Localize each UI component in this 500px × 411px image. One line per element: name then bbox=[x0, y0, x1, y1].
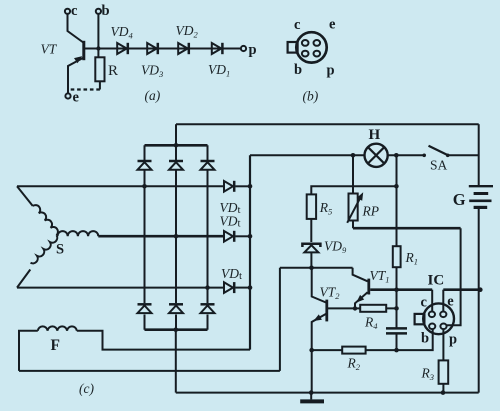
resistor R2 bbox=[342, 347, 365, 372]
wire R5 to VD9 bbox=[310, 219, 312, 242]
svg-text:(a): (a) bbox=[145, 88, 161, 103]
node base junction bbox=[96, 46, 100, 50]
wire VD9 down bbox=[310, 252, 312, 267]
wire phase mid bbox=[98, 235, 224, 238]
svg-text:RP: RP bbox=[362, 204, 380, 219]
wire below R bbox=[99, 81, 101, 89]
diode bridge top 2 bbox=[169, 161, 183, 170]
wire R2 line bbox=[312, 329, 433, 350]
wire collector bbox=[68, 14, 84, 43]
wire C down bbox=[396, 333, 398, 350]
wire base bbox=[85, 48, 241, 50]
wire R3 down bbox=[442, 384, 444, 393]
resistor R bbox=[95, 57, 118, 81]
svg-text:c: c bbox=[294, 17, 301, 33]
svg-text:c: c bbox=[71, 3, 78, 19]
diode bridge bottom 1 bbox=[138, 304, 152, 313]
wire right bus upper bbox=[478, 124, 480, 185]
wire VDt3 out bbox=[235, 287, 250, 289]
transistor VT2 bbox=[312, 268, 341, 350]
wire left column bbox=[279, 268, 281, 371]
svg-text:F: F bbox=[51, 337, 60, 354]
wire negative column bbox=[175, 330, 177, 393]
wire VT2 base / R4 line bbox=[328, 307, 397, 309]
pin b bbox=[302, 51, 309, 57]
wire trio bus bbox=[249, 155, 251, 349]
diode VDt3 bbox=[224, 282, 234, 293]
node R2 left bbox=[309, 348, 314, 353]
lamp line bbox=[250, 154, 424, 156]
rheostat RP column bbox=[352, 155, 354, 228]
wire p to R3 bbox=[442, 329, 444, 360]
node R3 bottom bbox=[441, 390, 446, 395]
node phase1-col1 bbox=[142, 184, 147, 189]
svg-text:c: c bbox=[421, 295, 428, 311]
diode VD1 bbox=[208, 43, 230, 79]
node R4-C bbox=[394, 306, 399, 311]
zener VD9 bbox=[302, 239, 347, 256]
svg-text:p: p bbox=[449, 332, 457, 348]
wire bottom line bbox=[176, 392, 479, 394]
IC pin e bbox=[440, 312, 446, 318]
diode VD3 bbox=[141, 43, 163, 79]
wire c pin bbox=[431, 290, 433, 312]
node VD9 bbox=[309, 265, 314, 270]
IC pin c bbox=[429, 312, 435, 318]
node top bus bbox=[174, 143, 179, 148]
svg-text:b: b bbox=[421, 331, 429, 347]
dashed wire bbox=[68, 88, 100, 90]
terminal e bbox=[65, 90, 79, 106]
wire top line bbox=[176, 123, 479, 125]
connector case bbox=[296, 32, 326, 62]
node lamp right bbox=[394, 153, 399, 158]
emitter wire bbox=[68, 58, 84, 94]
wire RP bottom line bbox=[353, 227, 461, 230]
lamp H bbox=[365, 127, 388, 167]
field winding F bbox=[19, 326, 250, 371]
wire VDt2 out bbox=[235, 235, 250, 237]
diode VDt1 bbox=[224, 181, 234, 192]
diode bridge top 3 bbox=[201, 161, 215, 170]
node bus-R1col bbox=[394, 287, 399, 292]
ground bbox=[300, 393, 324, 402]
svg-text:VT: VT bbox=[41, 42, 58, 57]
wire VDt1 out bbox=[235, 185, 250, 187]
pin p bbox=[314, 51, 321, 57]
wire phase top bbox=[17, 185, 224, 187]
svg-text:H: H bbox=[369, 127, 381, 143]
svg-text:e: e bbox=[329, 17, 336, 33]
node bus-phase2 bbox=[248, 234, 253, 239]
node bus-phase1 bbox=[248, 184, 253, 189]
diode VDt2 bbox=[224, 231, 234, 242]
node phase3-col3 bbox=[205, 285, 210, 290]
wire VT1 base bus bbox=[370, 288, 432, 291]
wire bridge column 3 bbox=[207, 145, 209, 329]
wire bridge bottom bus bbox=[145, 328, 208, 331]
svg-text:e: e bbox=[73, 90, 80, 106]
wire p feed column bbox=[447, 228, 461, 325]
node bottom bus bbox=[174, 327, 179, 332]
wire bridge top bus bbox=[145, 144, 208, 147]
node VT1e-VT2b bbox=[353, 306, 357, 310]
transistor VT1 bbox=[353, 268, 390, 309]
node R2-C bbox=[394, 348, 399, 353]
wire phase bottom bbox=[17, 287, 224, 289]
wire bridge output up bbox=[175, 124, 177, 145]
resistor R5 bbox=[307, 194, 333, 219]
diode VD4 bbox=[111, 24, 134, 54]
svg-text:R: R bbox=[108, 63, 118, 79]
wire emitter VT2 to ground bbox=[311, 350, 313, 393]
IC pin b bbox=[429, 324, 435, 330]
resistor R1 bbox=[393, 246, 418, 267]
svg-text:VDt: VDt bbox=[221, 266, 242, 282]
wire right bus lower bbox=[478, 208, 480, 393]
diode bridge top 1 bbox=[138, 161, 152, 170]
terminal b bbox=[96, 3, 110, 19]
svg-text:VDt: VDt bbox=[220, 214, 241, 230]
resistor R5 column hook bbox=[311, 186, 396, 194]
svg-text:(c): (c) bbox=[79, 381, 94, 396]
wire VD9 node line bbox=[280, 267, 353, 269]
svg-text:e: e bbox=[447, 294, 454, 310]
svg-text:b: b bbox=[294, 62, 302, 78]
wire lamp-right column bbox=[396, 155, 398, 246]
capacitor C bbox=[386, 328, 407, 333]
IC pin p bbox=[440, 324, 446, 330]
switch SA bbox=[422, 146, 478, 173]
stator S winding bbox=[17, 186, 98, 287]
resistor R3 bbox=[421, 360, 449, 383]
node lamp left bbox=[351, 153, 356, 158]
terminal p bbox=[241, 42, 257, 58]
node bus-phase3 bbox=[248, 285, 253, 290]
node phase2-col2 bbox=[174, 234, 179, 239]
connector tab bbox=[288, 42, 298, 53]
svg-text:S: S bbox=[56, 242, 64, 258]
transistor VT bar bbox=[82, 41, 85, 60]
diode bridge bottom 3 bbox=[201, 304, 215, 313]
node ground bbox=[309, 390, 314, 395]
wire R1 down bbox=[396, 267, 398, 328]
wire e pin bbox=[442, 290, 444, 312]
battery G bbox=[453, 186, 493, 209]
terminal c bbox=[65, 3, 78, 19]
svg-text:b: b bbox=[102, 3, 110, 19]
pin e bbox=[314, 40, 321, 46]
IC connector case bbox=[423, 303, 454, 334]
wire bridge column 1 bbox=[144, 145, 146, 329]
diode bridge bottom 2 bbox=[169, 304, 183, 313]
wire bridge column 2 bbox=[175, 145, 177, 329]
svg-text:G: G bbox=[453, 190, 466, 209]
emitter arrow bbox=[74, 56, 82, 63]
wire b column bbox=[97, 14, 99, 58]
rheostat RP bbox=[347, 192, 379, 223]
IC connector tab bbox=[415, 314, 425, 324]
wire bus right segment bbox=[443, 288, 480, 291]
diode VD2 bbox=[176, 23, 199, 54]
wire F bottom return bbox=[19, 370, 280, 372]
pin c bbox=[302, 40, 309, 46]
svg-text:(b): (b) bbox=[303, 89, 319, 104]
svg-text:SA: SA bbox=[430, 158, 448, 173]
node R5 line bbox=[394, 184, 399, 189]
svg-text:p: p bbox=[249, 42, 257, 58]
resistor R4 bbox=[360, 305, 386, 331]
svg-text:p: p bbox=[327, 63, 335, 79]
svg-text:IC: IC bbox=[428, 273, 445, 289]
node bus-battery bbox=[478, 287, 483, 292]
